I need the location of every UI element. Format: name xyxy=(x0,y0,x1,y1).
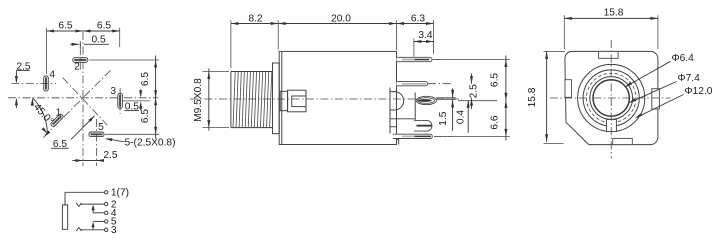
svg-text:0.5: 0.5 xyxy=(92,35,106,46)
svg-text:1.5: 1.5 xyxy=(438,111,449,125)
svg-text:6.5: 6.5 xyxy=(140,72,151,86)
svg-text:15.8: 15.8 xyxy=(527,87,538,107)
svg-text:Φ7.4: Φ7.4 xyxy=(678,73,701,84)
svg-text:Φ12.0: Φ12.0 xyxy=(685,86,713,97)
svg-text:0.4: 0.4 xyxy=(455,110,466,124)
svg-text:5: 5 xyxy=(98,122,104,133)
svg-text:6.5: 6.5 xyxy=(140,109,151,123)
svg-text:6.6: 6.6 xyxy=(490,115,501,129)
svg-text:8.2: 8.2 xyxy=(248,13,262,24)
svg-text:5-(2.5X0.8): 5-(2.5X0.8) xyxy=(125,137,176,148)
svg-text:2.5: 2.5 xyxy=(103,150,117,161)
svg-text:20.0: 20.0 xyxy=(331,13,351,24)
svg-text:1(7): 1(7) xyxy=(111,188,129,199)
svg-text:Φ6.4: Φ6.4 xyxy=(672,53,695,64)
svg-text:15.8: 15.8 xyxy=(604,8,624,19)
svg-text:6.5: 6.5 xyxy=(490,73,501,87)
svg-text:6.3: 6.3 xyxy=(411,13,425,24)
svg-text:3.4: 3.4 xyxy=(418,30,432,41)
svg-text:3: 3 xyxy=(111,225,117,236)
svg-text:3: 3 xyxy=(110,86,116,97)
svg-text:1: 1 xyxy=(56,107,62,118)
svg-text:2: 2 xyxy=(74,62,80,73)
svg-text:6.5: 6.5 xyxy=(97,21,111,32)
svg-text:6.5: 6.5 xyxy=(58,21,72,32)
svg-text:2.5: 2.5 xyxy=(469,84,480,98)
svg-text:4: 4 xyxy=(49,69,55,80)
svg-text:M9.5X0.8: M9.5X0.8 xyxy=(193,78,204,122)
